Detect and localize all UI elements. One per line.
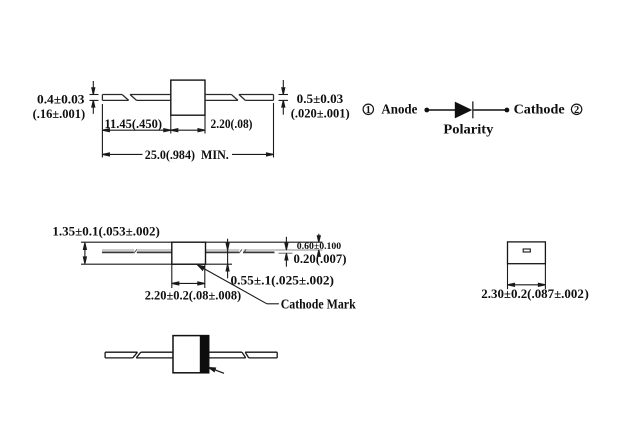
svg-text:Cathode: Cathode <box>514 101 565 116</box>
svg-text:2.30±0.2(.087±.002: 2.30±0.2(.087±.002 <box>481 286 584 301</box>
dimension indicator 0.4 lead diameter (left) <box>90 81 99 114</box>
svg-text:0.55±.1(.025±.002): 0.55±.1(.025±.002) <box>231 273 335 288</box>
svg-text:Anode: Anode <box>381 101 417 116</box>
extension line body bottom view2 <box>81 263 232 265</box>
node cathode dot <box>505 108 510 113</box>
body outline view1 <box>171 80 205 115</box>
lead end cross-section <box>523 249 530 252</box>
leader cathode mark <box>198 265 279 304</box>
wire lead left segment 1 view1 <box>102 95 128 101</box>
svg-text:11.45(.450): 11.45(.450) <box>105 116 163 131</box>
wire lead right segment 2 view1 <box>239 95 274 101</box>
svg-text:1: 1 <box>366 105 371 116</box>
dimension 0.20 lead thickness <box>285 237 288 267</box>
wire anode to diode <box>427 109 455 111</box>
wire lead left segment 2 view1 <box>130 95 171 101</box>
svg-text:0.4±0.03: 0.4±0.03 <box>37 92 85 107</box>
svg-text:1.35±0.1(.053±.002): 1.35±0.1(.053±.002) <box>52 224 159 239</box>
pin number 2 circled <box>571 104 581 116</box>
svg-text:2.20(.08): 2.20(.08) <box>211 116 253 131</box>
svg-text:(.020±.001): (.020±.001) <box>291 106 350 121</box>
body outline view4 <box>173 336 209 373</box>
dimension 1.35 body height <box>83 243 86 264</box>
svg-text:2: 2 <box>574 105 579 116</box>
wire lead left segment 2 view4 <box>136 352 173 358</box>
dimension 2.20 body length view2 <box>172 282 205 285</box>
wire lead left view2 <box>102 249 172 253</box>
dimension 11.45 lead length <box>102 129 170 132</box>
extension line body top view2 <box>81 241 323 243</box>
svg-text:0.5±0.03: 0.5±0.03 <box>297 91 344 106</box>
svg-text:0.60±0.100: 0.60±0.100 <box>297 241 342 251</box>
wire lead right segment 1 view1 <box>205 95 238 101</box>
extension lines below body view2 <box>172 264 205 288</box>
svg-text:(.16±.001): (.16±.001) <box>33 106 86 121</box>
dimension 0.55 standoff <box>226 239 229 279</box>
body end outline <box>508 242 546 264</box>
dimension 25.0 overall length <box>102 153 273 156</box>
extension line lead bottom tick view2 <box>279 252 293 254</box>
wire lead right segment 2 view4 <box>245 352 277 358</box>
body outline view2 <box>172 242 206 264</box>
svg-text:): ) <box>585 286 589 301</box>
svg-text:2.20±0.2(.08±.008): 2.20±0.2(.08±.008) <box>145 287 242 302</box>
node anode dot <box>424 108 429 113</box>
dimension 2.20 body length view1 <box>171 129 205 132</box>
cathode band <box>200 335 209 373</box>
svg-text:Cathode Mark: Cathode Mark <box>281 297 356 312</box>
leader arrow to cathode band <box>209 368 224 374</box>
dimension indicator 0.5 lead diameter (right) <box>279 80 289 115</box>
wire lead right view2 <box>206 249 277 253</box>
wire lead left segment 1 view4 <box>105 352 137 358</box>
svg-text:Polarity: Polarity <box>443 122 493 137</box>
wire diode to cathode <box>474 109 508 111</box>
svg-text:25.0(.984) MIN.: 25.0(.984) MIN. <box>145 147 229 162</box>
pin number 1 circled <box>363 104 373 116</box>
diode D1 cathode bar <box>472 101 474 118</box>
extension lines below body view1 <box>102 103 273 158</box>
extension lines below end view <box>508 264 546 290</box>
diode D1 triangle <box>455 102 472 119</box>
dimension 0.60 lead offset <box>317 234 320 256</box>
extension line lead top (right of lead end) view2 <box>276 249 323 251</box>
wire lead right segment 1 view4 <box>209 352 246 358</box>
dimension 2.30 body width <box>508 283 546 286</box>
